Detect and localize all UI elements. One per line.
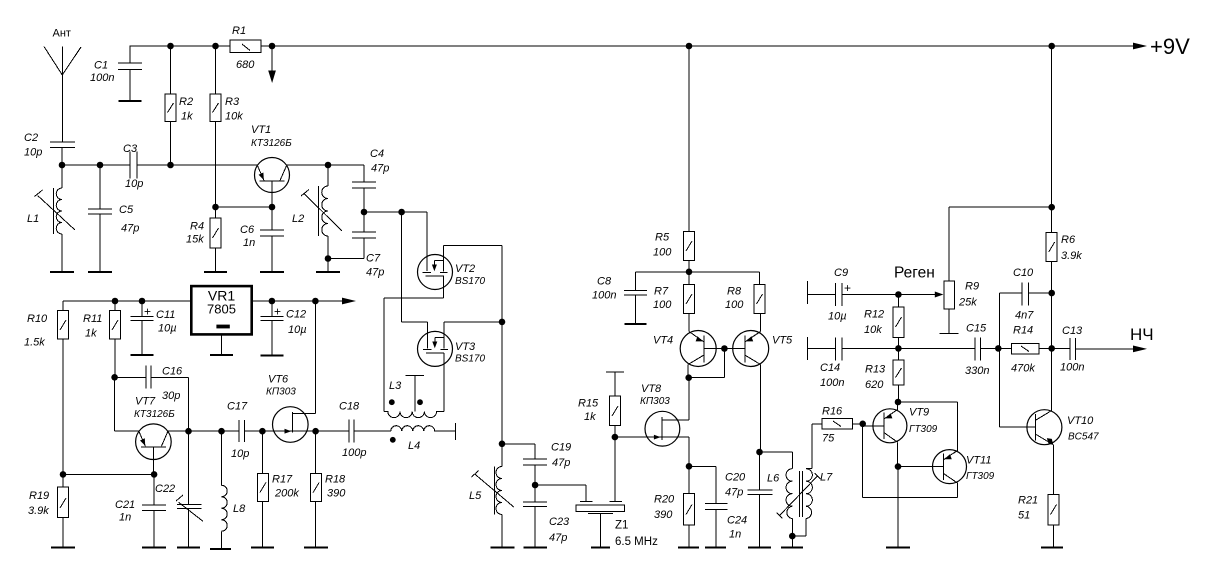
svg-text:C24: C24 — [727, 515, 747, 527]
svg-text:R15: R15 — [578, 398, 599, 410]
svg-text:10µ: 10µ — [828, 311, 847, 323]
svg-text:C15: C15 — [966, 323, 987, 335]
svg-text:R10: R10 — [27, 313, 48, 325]
ground (L5) — [491, 547, 515, 549]
svg-text:C19: C19 — [551, 442, 571, 454]
resistor R19 3.9k — [28, 474, 69, 547]
transistor VT8 КП303 — [615, 378, 689, 467]
svg-text:30p: 30p — [162, 390, 180, 402]
resistor R15 1k — [578, 372, 624, 501]
svg-text:VT3: VT3 — [455, 341, 476, 353]
svg-text:C12: C12 — [286, 309, 306, 321]
ground (R19) — [51, 547, 75, 549]
capacitor C17 10p — [227, 401, 273, 461]
svg-text:R6: R6 — [1061, 234, 1076, 246]
svg-text:10p: 10p — [125, 178, 143, 190]
svg-text:L2: L2 — [292, 213, 304, 225]
svg-text:C1: C1 — [94, 60, 108, 72]
svg-text:51: 51 — [1018, 510, 1030, 522]
svg-text:R14: R14 — [1013, 325, 1033, 337]
ground (R17) — [251, 547, 274, 549]
svg-text:VT4: VT4 — [653, 335, 673, 347]
svg-text:47p: 47p — [366, 267, 384, 279]
svg-text:C6: C6 — [240, 224, 255, 236]
svg-text:R7: R7 — [654, 286, 669, 298]
ground (C8) — [625, 323, 647, 325]
capacitor C3 10p — [123, 143, 143, 190]
capacitor C10 4n7 — [1000, 267, 1055, 348]
node rail junction dots — [167, 43, 1055, 50]
wire main tank node — [62, 165, 364, 182]
svg-text:C23: C23 — [549, 516, 570, 528]
svg-text:C4: C4 — [370, 148, 384, 160]
svg-text:3.9k: 3.9k — [1061, 250, 1082, 262]
svg-text:BS170: BS170 — [455, 354, 485, 365]
resistor R6 3.9k — [1046, 46, 1082, 411]
svg-text:7805: 7805 — [207, 302, 236, 317]
svg-text:R16: R16 — [822, 406, 843, 418]
svg-text:47p: 47p — [725, 487, 743, 499]
svg-text:VT9: VT9 — [909, 407, 929, 419]
svg-text:R20: R20 — [654, 494, 675, 506]
transistor VT2 BS170 — [418, 246, 486, 298]
capacitor C5 47p — [88, 165, 139, 272]
resistor R18 390 — [311, 431, 347, 547]
ground (R21) — [1041, 547, 1063, 549]
svg-text:10p: 10p — [24, 147, 42, 159]
ground (C21) — [142, 547, 166, 549]
wire feed arrow down after R1 — [268, 46, 276, 83]
svg-text:+: + — [844, 281, 851, 295]
svg-text:VT5: VT5 — [772, 335, 793, 347]
resistor R16 75 — [812, 406, 866, 445]
capacitor C12 10µ — [260, 301, 306, 355]
svg-text:47p: 47p — [121, 223, 139, 235]
svg-text:100n: 100n — [90, 72, 114, 84]
svg-text:100p: 100p — [342, 447, 366, 459]
capacitor C18 100p — [316, 401, 367, 460]
wire VT10 base — [1000, 348, 1036, 427]
resistor R20 390 — [654, 463, 695, 547]
potentiometer R9 25k — [898, 207, 1051, 333]
resistor R11 1k — [83, 301, 121, 377]
capacitor C8 100n — [592, 272, 647, 324]
ground (C12) — [260, 354, 283, 356]
svg-text:C18: C18 — [339, 401, 360, 413]
svg-text:25k: 25k — [958, 297, 977, 309]
svg-text:L5: L5 — [469, 490, 482, 502]
inductor L5 variable — [469, 467, 514, 548]
transistor VT3 BS170 — [418, 322, 486, 412]
svg-text:15k: 15k — [186, 234, 204, 246]
svg-text:VT6: VT6 — [268, 374, 289, 386]
svg-text:НЧ: НЧ — [1130, 325, 1154, 344]
svg-text:КП303: КП303 — [640, 396, 670, 407]
svg-text:1.5k: 1.5k — [24, 337, 45, 349]
capacitor C16 30p — [111, 365, 188, 431]
capacitor C22 trimmer — [155, 431, 203, 547]
svg-text:+9V: +9V — [1150, 34, 1190, 59]
svg-text:330n: 330n — [965, 365, 989, 377]
svg-text:VT1: VT1 — [251, 124, 271, 136]
svg-text:C2: C2 — [24, 132, 38, 144]
svg-text:Z1: Z1 — [615, 520, 628, 532]
ground (VR1) — [210, 354, 233, 356]
svg-text:C13: C13 — [1062, 325, 1083, 337]
svg-text:L7: L7 — [820, 472, 833, 484]
svg-text:C11: C11 — [156, 309, 175, 321]
svg-text:1n: 1n — [729, 529, 741, 541]
capacitor C2 10p — [24, 132, 75, 165]
regulator VR1 7805 — [191, 286, 251, 354]
transistor VT5 — [724, 331, 793, 453]
node dots VT6 line — [259, 428, 319, 435]
wire 5V rail — [63, 298, 356, 305]
ground (C22) — [177, 547, 200, 549]
svg-text:100n: 100n — [820, 377, 844, 389]
svg-text:ГТ309: ГТ309 — [966, 471, 995, 482]
transistor VT7 КТ3126Б — [115, 377, 176, 474]
ground (R20) — [678, 547, 699, 549]
svg-text:1k: 1k — [584, 411, 596, 423]
capacitor C13 100n — [1060, 325, 1154, 374]
transformer L4 — [354, 423, 456, 452]
svg-text:4n7: 4n7 — [1015, 310, 1034, 322]
transistor VT6 КП303 — [266, 301, 316, 442]
svg-text:C14: C14 — [820, 362, 840, 374]
svg-text:R1: R1 — [232, 25, 246, 37]
svg-text:100n: 100n — [1060, 362, 1084, 374]
capacitor C4 47p — [352, 148, 389, 212]
svg-text:100: 100 — [725, 299, 744, 311]
svg-text:100: 100 — [653, 247, 672, 259]
transformer L6 — [760, 452, 796, 547]
resistor R5 100 — [653, 46, 695, 272]
svg-text:L4: L4 — [408, 440, 420, 452]
ground (C20) — [748, 547, 771, 549]
svg-text:КТ3126Б: КТ3126Б — [134, 409, 175, 420]
svg-text:R5: R5 — [655, 232, 670, 244]
wire RF bus vertical — [499, 246, 506, 467]
capacitor C6 1n — [240, 207, 284, 272]
wire C4/C7 node to gates — [361, 209, 428, 349]
wire VT9 collector to VT11 emitter — [895, 399, 958, 451]
svg-text:VT10: VT10 — [1067, 415, 1094, 427]
svg-text:C22: C22 — [155, 483, 175, 495]
svg-text:200k: 200k — [274, 488, 299, 500]
wire VT3 drain to bus — [444, 321, 502, 323]
wire base node VT1 — [212, 204, 275, 211]
wire VT11 collector feedback to VT9 base — [863, 424, 958, 498]
resistor R17 200k — [257, 431, 299, 547]
capacitor C11 10µ — [131, 301, 177, 355]
node VT9 emitter — [895, 463, 902, 547]
svg-text:3.9k: 3.9k — [28, 505, 49, 517]
capacitor C14 100n — [820, 337, 975, 389]
wire VT4 collector to base node — [685, 345, 727, 381]
svg-text:R13: R13 — [865, 364, 886, 376]
transistor VT11 ГТ309 — [898, 450, 995, 498]
ground (R4) — [204, 271, 227, 273]
ground (C24) — [705, 547, 726, 549]
transistor VT9 ГТ309 — [863, 402, 938, 467]
capacitor C15 330n — [965, 323, 1012, 378]
wire VT7 collector line — [168, 428, 239, 435]
transistor VT4 — [653, 331, 724, 378]
svg-text:390: 390 — [654, 509, 673, 521]
svg-text:1k: 1k — [181, 111, 193, 123]
svg-text:R9: R9 — [965, 281, 979, 293]
svg-text:1n: 1n — [243, 237, 255, 249]
terminal C9 input — [808, 281, 836, 304]
svg-text:10µ: 10µ — [288, 324, 307, 336]
resistor R8 100 — [725, 272, 765, 332]
svg-text:470k: 470k — [1011, 363, 1035, 375]
wire R5 bottom node — [636, 269, 760, 276]
svg-text:10µ: 10µ — [158, 323, 177, 335]
ground (VT9 emitter) — [886, 547, 910, 549]
svg-text:Реген: Реген — [894, 265, 935, 282]
svg-text:10k: 10k — [864, 324, 882, 336]
svg-text:6.5 MHz: 6.5 MHz — [615, 536, 658, 548]
ground (L2) — [316, 271, 340, 273]
svg-text:C5: C5 — [119, 204, 134, 216]
svg-text:+: + — [274, 305, 281, 319]
svg-text:R17: R17 — [272, 474, 293, 486]
svg-text:680: 680 — [236, 59, 255, 71]
transistor VT1 КТ3126Б — [251, 124, 292, 207]
transformer L3 — [384, 375, 444, 417]
svg-text:47p: 47p — [549, 532, 567, 544]
resistor R13 620 — [865, 348, 904, 402]
svg-text:R19: R19 — [29, 490, 49, 502]
svg-text:VT7: VT7 — [135, 396, 156, 408]
resistor R12 10k — [864, 295, 904, 349]
resistor R3 10k — [210, 46, 243, 207]
ground (L8) — [210, 548, 231, 550]
capacitor C7 47p — [328, 212, 384, 279]
ground (C11) — [131, 354, 154, 356]
capacitor C24 1n — [689, 466, 747, 547]
svg-text:+: + — [144, 305, 151, 319]
svg-text:47p: 47p — [552, 457, 570, 469]
capacitor C21 1n — [115, 474, 166, 547]
svg-text:Ант: Ант — [53, 28, 71, 40]
svg-text:10k: 10k — [225, 111, 243, 123]
ground (L6/L7) — [781, 547, 803, 549]
wire VT7 base node — [60, 471, 158, 478]
svg-text:100n: 100n — [592, 290, 616, 302]
svg-text:КТ3126Б: КТ3126Б — [251, 138, 292, 149]
ground (C1) — [119, 100, 142, 102]
capacitor C9 10µ — [828, 267, 898, 323]
wire VT2 drain to bus — [443, 245, 502, 247]
svg-text:L3: L3 — [389, 380, 402, 392]
wire +9V top rail — [130, 34, 1191, 59]
resistor R7 100 — [653, 272, 695, 332]
ground (Z1) — [591, 547, 610, 549]
wire VT2 source to L3 — [384, 298, 444, 412]
svg-text:390: 390 — [327, 488, 346, 500]
ground (C6) — [260, 271, 284, 273]
svg-text:R3: R3 — [225, 96, 240, 108]
svg-text:620: 620 — [865, 379, 884, 391]
node Реген — [894, 265, 935, 298]
svg-text:R11: R11 — [83, 313, 102, 325]
ground (C5) — [88, 271, 112, 273]
svg-text:R8: R8 — [727, 286, 742, 298]
svg-text:C8: C8 — [597, 276, 612, 288]
antenna Ант — [44, 28, 81, 143]
svg-text:C17: C17 — [227, 401, 248, 413]
svg-text:L8: L8 — [233, 503, 246, 515]
svg-text:VT11: VT11 — [966, 455, 991, 467]
svg-text:R4: R4 — [190, 221, 204, 233]
capacitor C20 47p — [725, 449, 772, 547]
svg-text:1k: 1k — [85, 328, 97, 340]
capacitor C19 47p — [502, 442, 571, 489]
node L2 bottom — [325, 255, 332, 271]
svg-text:VT2: VT2 — [455, 263, 475, 275]
svg-text:1n: 1n — [119, 512, 131, 524]
svg-text:47p: 47p — [371, 163, 389, 175]
svg-text:L1: L1 — [27, 213, 39, 225]
svg-text:C21: C21 — [115, 499, 135, 511]
resistor R4 15k — [186, 207, 221, 272]
svg-text:C9: C9 — [834, 267, 848, 279]
resistor R2 1k — [165, 46, 193, 165]
inductor L1 variable — [27, 165, 75, 272]
resistor R10 1.5k — [24, 301, 69, 474]
svg-text:C20: C20 — [725, 472, 746, 484]
capacitor C23 47p — [523, 485, 570, 547]
svg-text:100: 100 — [653, 299, 672, 311]
ground (C23) — [524, 547, 548, 549]
svg-text:R2: R2 — [179, 96, 193, 108]
inductor L2 variable — [292, 165, 342, 259]
svg-text:R18: R18 — [325, 474, 346, 486]
svg-text:BS170: BS170 — [455, 276, 485, 287]
transistor VT10 BC547 — [1027, 410, 1099, 495]
svg-text:10p: 10p — [231, 448, 249, 460]
svg-text:ГТ309: ГТ309 — [909, 424, 938, 435]
svg-text:C3: C3 — [123, 143, 138, 155]
crystal Z1 6.5 MHz — [535, 485, 658, 548]
svg-text:C7: C7 — [366, 253, 381, 265]
capacitor C1 100n — [90, 46, 142, 100]
svg-text:C16: C16 — [162, 366, 183, 378]
svg-text:75: 75 — [822, 433, 835, 445]
resistor R14 470k — [1011, 325, 1070, 375]
terminal C14 input — [808, 337, 836, 360]
svg-text:L6: L6 — [767, 473, 780, 485]
svg-text:BC547: BC547 — [1068, 432, 1099, 443]
ground (L1) — [50, 271, 74, 273]
svg-text:C10: C10 — [1013, 267, 1034, 279]
svg-text:R21: R21 — [1018, 495, 1038, 507]
resistor R1 680 — [230, 25, 261, 71]
svg-text:R12: R12 — [864, 309, 884, 321]
transformer L7 — [777, 424, 834, 536]
svg-text:КП303: КП303 — [266, 387, 296, 398]
svg-text:VT8: VT8 — [641, 383, 662, 395]
ground (R18) — [304, 547, 328, 549]
resistor R21 51 — [1018, 495, 1059, 548]
node dots tank line — [59, 162, 332, 169]
inductor L8 — [222, 431, 247, 548]
